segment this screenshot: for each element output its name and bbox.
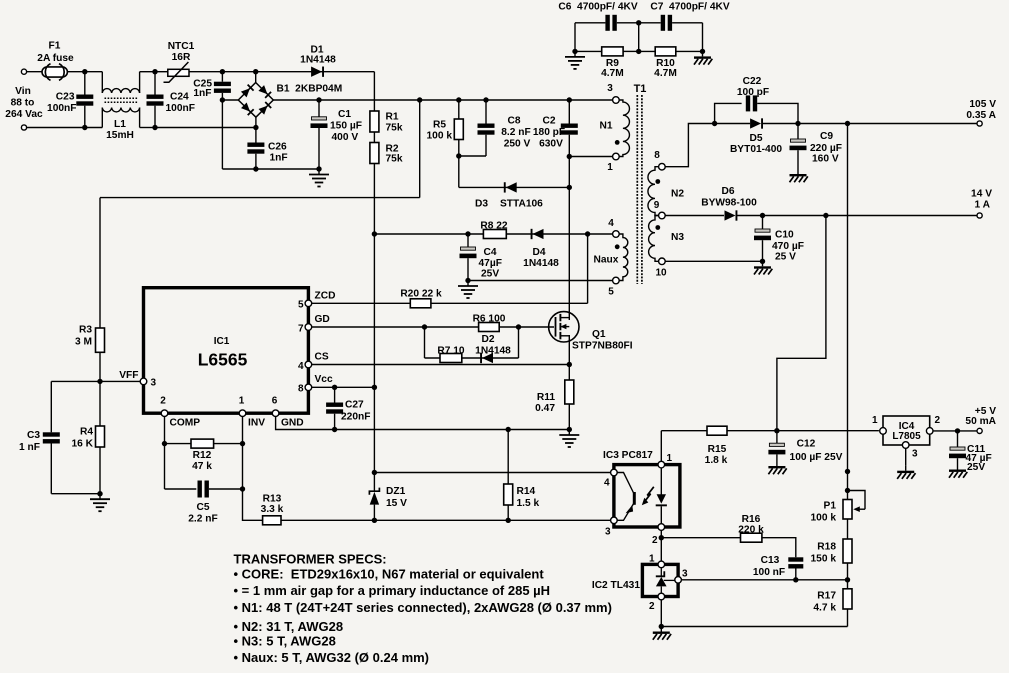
pin 2 COMP <box>161 410 168 417</box>
diode D5 <box>750 118 763 128</box>
capacitor C10 <box>754 229 771 240</box>
wire AC line to C23 <box>27 71 85 73</box>
wire <box>661 430 707 432</box>
svg-text:C6 4700pF/ 4KV: C6 4700pF/ 4KV <box>558 2 637 13</box>
resistor R12 <box>191 439 214 448</box>
wire <box>507 430 509 485</box>
wire <box>623 50 639 52</box>
resistor R20 <box>410 299 431 308</box>
wire TL431 ref line <box>681 579 847 581</box>
transformer winding Naux <box>619 234 628 281</box>
wire <box>847 563 849 580</box>
pin 7 GD <box>305 324 312 331</box>
svg-text:9: 9 <box>654 200 660 211</box>
svg-text:R11: R11 <box>537 392 555 403</box>
pin 4 CS <box>305 361 312 368</box>
pin 3 IC3 <box>611 517 618 524</box>
bridge diode bottom-right <box>258 101 271 114</box>
diode IC3 LED <box>656 468 667 524</box>
resistor R14 <box>504 484 513 505</box>
svg-text:R8 22: R8 22 <box>480 221 508 232</box>
wire <box>957 431 959 447</box>
svg-text:R3: R3 <box>79 325 92 336</box>
svg-text:7: 7 <box>298 324 304 335</box>
wire <box>84 72 86 95</box>
pin 1 INV <box>239 410 246 417</box>
svg-text:150 µF: 150 µF <box>330 121 362 132</box>
wire VFF to C3 <box>51 380 100 382</box>
wire <box>776 454 778 461</box>
capacitor C2 <box>561 124 578 135</box>
wire DC bus <box>273 99 319 101</box>
svg-text:• N1: 48 T (24T+24T series con: • N1: 48 T (24T+24T series connected), 2… <box>234 600 612 615</box>
wire <box>155 71 168 73</box>
wire <box>139 108 141 128</box>
junction startup node <box>372 231 377 236</box>
wire bus to VFF line <box>419 100 421 198</box>
svg-text:1nF: 1nF <box>270 153 288 164</box>
svg-text:• Naux: 5 T, AWG32 (Ø 0.24 mm): • Naux: 5 T, AWG32 (Ø 0.24 mm) <box>234 650 430 665</box>
wire <box>797 124 799 139</box>
pin 1 T1 <box>613 153 620 160</box>
terminal 5V output <box>977 428 982 433</box>
svg-text:R18: R18 <box>817 542 836 553</box>
wire startup chain down <box>373 164 375 235</box>
svg-text:2: 2 <box>649 601 655 612</box>
wire <box>154 72 156 95</box>
wire <box>638 23 640 52</box>
zener IC2 TL431 symbol <box>656 568 675 594</box>
pin 6 GND <box>272 410 279 417</box>
svg-text:3: 3 <box>605 527 611 538</box>
svg-text:C7 4700pF/ 4KV: C7 4700pF/ 4KV <box>650 2 729 13</box>
svg-text:1N4148: 1N4148 <box>300 55 336 66</box>
svg-text:16R: 16R <box>172 52 191 63</box>
node N3 phase dot <box>655 225 660 230</box>
svg-text:R7 10: R7 10 <box>437 346 465 357</box>
junction C9 top <box>795 121 800 126</box>
capacitor C24 <box>147 95 164 106</box>
pin 3 VFF <box>140 378 147 385</box>
junction R12 left <box>162 441 167 446</box>
svg-text:Vin: Vin <box>15 86 31 97</box>
svg-text:1nF: 1nF <box>193 88 211 99</box>
junction bus C2 <box>567 97 572 102</box>
svg-text:2: 2 <box>652 535 658 546</box>
junction C24 bottom <box>152 125 157 130</box>
wire <box>639 50 656 52</box>
wire <box>50 444 52 494</box>
svg-text:R15: R15 <box>708 444 727 455</box>
zener diode DZ1 <box>369 488 379 505</box>
diode D2 <box>480 353 493 363</box>
svg-text:F1: F1 <box>49 41 61 52</box>
svg-text:NTC1: NTC1 <box>168 41 195 52</box>
wire INV down <box>243 417 263 521</box>
svg-text:R14: R14 <box>517 486 536 497</box>
junction DZ1 top <box>372 470 377 475</box>
svg-text:3.3 k: 3.3 k <box>261 504 284 515</box>
svg-text:N3: N3 <box>671 232 684 243</box>
wire <box>847 472 849 491</box>
shunt regulator IC2 TL431 box <box>642 564 678 596</box>
junction R4 C3 bottom <box>97 491 102 496</box>
svg-text:C12: C12 <box>797 439 816 450</box>
junction C12 R15 <box>774 428 779 433</box>
svg-text:0.35 A: 0.35 A <box>966 110 996 121</box>
wire <box>715 123 751 125</box>
wire bridge AC1 stub <box>255 72 257 83</box>
wire <box>568 365 570 381</box>
svg-text:C26: C26 <box>268 142 287 153</box>
svg-text:BYT01-400: BYT01-400 <box>730 144 782 155</box>
junction C22 left <box>712 121 717 126</box>
wire <box>165 488 197 490</box>
capacitor C9 <box>790 139 807 150</box>
transistor Q1 body arrow <box>560 324 569 329</box>
svg-text:250 V: 250 V <box>504 139 531 150</box>
svg-text:4: 4 <box>604 478 610 489</box>
wire <box>518 327 520 358</box>
svg-text:1 nF: 1 nF <box>19 442 40 453</box>
wire <box>51 493 100 495</box>
capacitor C3 <box>43 432 60 443</box>
wire P1 wiper loop <box>848 491 866 510</box>
wire <box>209 488 243 490</box>
svg-text:14 V: 14 V <box>971 189 992 200</box>
junction bus C8 <box>483 97 488 102</box>
junction Y-cap primary gnd <box>572 49 577 54</box>
svg-text:1: 1 <box>667 453 673 464</box>
resistor R13 <box>263 516 281 525</box>
wire AC1 to D1 <box>256 71 375 73</box>
svg-text:100 k: 100 k <box>811 513 837 524</box>
svg-text:Vcc: Vcc <box>315 374 333 385</box>
pin 9 T1 <box>659 212 666 219</box>
capacitor C26 <box>247 143 264 154</box>
junction drain clamp <box>567 185 572 190</box>
svg-text:4: 4 <box>608 218 614 229</box>
node N1 phase dot <box>615 140 620 145</box>
svg-text:88 to: 88 to <box>11 98 35 109</box>
ground primary below R4 <box>90 494 110 512</box>
svg-text:75k: 75k <box>386 123 403 134</box>
diode D4 <box>531 229 544 239</box>
arrow P1 wiper <box>853 506 865 512</box>
wire <box>672 22 702 24</box>
resistor R1 <box>370 111 379 132</box>
wire <box>222 71 255 73</box>
svg-text:ZCD: ZCD <box>315 291 336 302</box>
svg-text:150 k: 150 k <box>811 554 837 565</box>
wire <box>617 22 661 24</box>
junction R14 bottom <box>506 518 511 523</box>
svg-text:8.2 nF: 8.2 nF <box>501 127 530 138</box>
node Naux phase dot <box>615 244 620 249</box>
wire <box>660 600 662 627</box>
terminal 105V output <box>977 121 982 126</box>
svg-text:STP7NB80FI: STP7NB80FI <box>572 341 633 352</box>
wire N2 pin8 up <box>665 124 714 167</box>
capacitor C22 <box>746 95 757 111</box>
svg-text:180 pF: 180 pF <box>533 127 565 138</box>
svg-text:R4: R4 <box>80 427 93 438</box>
svg-text:Q1: Q1 <box>592 329 606 340</box>
junction TL431 gnd <box>659 624 664 629</box>
svg-text:400 V: 400 V <box>332 132 359 143</box>
wire opto pin2 to TL431 <box>660 530 662 561</box>
junction R14 top <box>506 427 511 432</box>
junction C10 bottom <box>760 259 765 264</box>
resistor R11 <box>565 380 574 404</box>
capacitor C7 <box>661 15 672 31</box>
bridge diode bottom-left <box>241 102 254 115</box>
svg-text:• = 1 mm air gap for a primary: • = 1 mm air gap for a primary inductanc… <box>234 583 551 598</box>
wire AC neutral to bridge <box>155 127 256 129</box>
svg-text:GD: GD <box>315 314 330 325</box>
svg-text:100 pF: 100 pF <box>737 87 769 98</box>
wire <box>373 72 375 111</box>
wire primary ground rail <box>222 168 319 170</box>
svg-text:1N4148: 1N4148 <box>475 346 511 357</box>
wire VFF sense line <box>100 197 420 199</box>
junction R7 branch <box>422 324 427 329</box>
capacitor C1 <box>311 117 328 128</box>
wire <box>661 537 740 539</box>
diode D3 <box>504 182 517 192</box>
junction C2 bottom / N1 pin1 <box>567 154 572 159</box>
svg-text:D5: D5 <box>749 133 762 144</box>
transistor IC3 photo <box>617 473 634 521</box>
svg-text:47µF: 47µF <box>479 258 502 269</box>
svg-text:1: 1 <box>649 554 655 565</box>
wire <box>99 447 101 494</box>
svg-text:GND: GND <box>281 418 304 429</box>
svg-text:5: 5 <box>298 300 304 311</box>
svg-text:• CORE: ETD29x16x10, N67 mate: • CORE: ETD29x16x10, N67 material or equ… <box>234 567 545 582</box>
svg-text:N1: N1 <box>599 121 612 132</box>
ground primary below C1 <box>309 169 329 187</box>
junction DZ1 bottom <box>372 518 377 523</box>
wire <box>373 234 375 387</box>
junction C27 bottom <box>332 427 337 432</box>
svg-text:1.8 k: 1.8 k <box>705 455 728 466</box>
wire <box>99 198 101 328</box>
diode D6 <box>725 210 738 220</box>
junction C13 bottom <box>793 577 798 582</box>
svg-text:R20 22 k: R20 22 k <box>400 289 442 300</box>
junction C27 top <box>332 385 337 390</box>
wire <box>189 71 222 73</box>
junction C6 C7 <box>636 20 641 25</box>
capacitor C27 <box>326 403 343 414</box>
wire ZCD tap down <box>587 234 589 303</box>
svg-text:100nF: 100nF <box>166 103 195 114</box>
svg-text:220 k: 220 k <box>738 525 764 536</box>
capacitor C11 <box>949 447 966 458</box>
svg-text:TRANSFORMER SPECS:: TRANSFORMER SPECS: <box>234 552 387 567</box>
junction R5 C8 bottom <box>456 153 461 158</box>
svg-text:15 V: 15 V <box>386 498 407 509</box>
op-amp IC1 L6565 box <box>144 288 309 414</box>
capacitor C12 <box>768 443 785 454</box>
wire <box>905 448 907 465</box>
junction C4 top <box>465 231 470 236</box>
svg-text:• N3: 5 T, AWG28: • N3: 5 T, AWG28 <box>234 634 336 649</box>
wire <box>458 100 460 119</box>
svg-text:VFF: VFF <box>119 370 138 381</box>
wire Vcc aux line <box>374 233 612 235</box>
junction Vcc node <box>372 385 377 390</box>
wire <box>165 443 243 445</box>
capacitor C25 <box>214 82 231 93</box>
svg-text:8: 8 <box>298 384 304 395</box>
wire opto pin1 up <box>660 431 662 462</box>
junction bridge AC1 <box>253 69 258 74</box>
svg-text:3: 3 <box>151 378 157 389</box>
svg-text:C10: C10 <box>775 230 794 241</box>
svg-text:C5: C5 <box>196 502 209 513</box>
svg-text:264 Vac: 264 Vac <box>5 109 43 120</box>
svg-text:100nF: 100nF <box>47 103 76 114</box>
wire <box>101 72 103 93</box>
svg-text:6: 6 <box>272 396 278 407</box>
junction C23 top <box>82 69 87 74</box>
svg-text:105 V: 105 V <box>969 99 996 110</box>
junction divider top <box>845 469 850 474</box>
svg-text:5: 5 <box>608 287 614 298</box>
transistor Q1 gate bar <box>555 317 557 337</box>
svg-text:220nF: 220nF <box>341 412 370 423</box>
wire <box>574 23 576 52</box>
wire <box>255 154 257 169</box>
wire <box>467 258 469 280</box>
bridge rectifier B1 body <box>238 83 273 118</box>
chassis ground below C11 <box>949 465 967 478</box>
transformer T1 core <box>637 95 642 284</box>
wire <box>847 609 849 627</box>
wire bridge AC2 stub <box>255 117 257 127</box>
wire <box>50 381 52 432</box>
svg-text:• N2: 31 T, AWG28: • N2: 31 T, AWG28 <box>234 619 344 634</box>
wire C22 right <box>757 103 798 123</box>
svg-text:BYW98-100: BYW98-100 <box>701 198 757 209</box>
junction C11 top <box>955 428 960 433</box>
wire <box>795 569 797 580</box>
svg-text:100 nF: 100 nF <box>753 567 785 578</box>
resistor R2 <box>370 143 379 164</box>
inductor L1 top winding <box>102 89 139 93</box>
wire <box>847 491 849 500</box>
wire N2 pin9 to D6 <box>665 215 724 217</box>
chassis ground below C10 <box>754 261 772 274</box>
svg-text:3: 3 <box>912 449 918 460</box>
resistor R10 <box>655 47 676 56</box>
junction R7 rejoin <box>516 324 521 329</box>
wire N3 pin10 return <box>665 260 762 262</box>
junction R16 tap <box>659 535 664 540</box>
svg-text:25 V: 25 V <box>775 252 796 263</box>
svg-text:3 M: 3 M <box>75 337 92 348</box>
wire <box>459 155 486 157</box>
wire <box>334 387 336 402</box>
pin 8 T1 <box>659 163 666 170</box>
resistor R17 <box>843 589 852 609</box>
chassis ground below IC4 <box>897 466 915 479</box>
svg-text:B1 2KBP04M: B1 2KBP04M <box>277 84 343 95</box>
wire <box>702 23 704 52</box>
inductor L1 core <box>105 98 138 102</box>
svg-text:4.7 k: 4.7 k <box>813 603 836 614</box>
svg-text:C8: C8 <box>507 116 520 127</box>
wire <box>281 519 374 521</box>
wire <box>568 100 570 124</box>
bridge diode top-left <box>241 84 254 97</box>
svg-text:10: 10 <box>655 268 667 279</box>
svg-text:D4: D4 <box>532 247 545 258</box>
resistor R6 <box>479 323 500 332</box>
pin 1 IC4 <box>880 428 887 435</box>
chassis ground Y-cap <box>694 51 712 64</box>
svg-text:1 A: 1 A <box>975 200 991 211</box>
svg-text:R1: R1 <box>386 112 399 123</box>
svg-text:50 mA: 50 mA <box>965 416 996 427</box>
svg-text:220 µF: 220 µF <box>810 143 842 154</box>
pin 1 IC3 <box>658 461 665 468</box>
svg-text:L6565: L6565 <box>198 350 248 370</box>
svg-text:15mH: 15mH <box>106 130 134 141</box>
wire <box>318 100 320 117</box>
wire clamp to drain <box>459 186 570 188</box>
junction source CS <box>567 362 572 367</box>
arrow IC3 light <box>642 487 654 505</box>
wire drain <box>568 187 570 320</box>
junction bridge AC2 <box>253 125 258 130</box>
transistor Q1 drain stub <box>560 317 569 319</box>
junction C4 bottom <box>465 278 470 283</box>
transformer winding N2 <box>648 167 659 216</box>
junction C25 bottom / DC minus <box>220 97 225 102</box>
chassis ground below C12 <box>768 461 786 474</box>
svg-text:IC2 TL431: IC2 TL431 <box>592 580 640 591</box>
capacitor C4 <box>460 247 477 258</box>
inductor L1 bottom winding <box>102 108 139 112</box>
pin 5 ZCD <box>305 300 312 307</box>
svg-text:R13: R13 <box>263 494 282 505</box>
diode D1 <box>311 67 324 77</box>
svg-text:160 V: 160 V <box>812 154 839 165</box>
wire <box>255 128 257 143</box>
wire Vcc down to opto <box>373 387 375 472</box>
svg-text:0.47: 0.47 <box>535 403 555 414</box>
wire <box>847 519 849 539</box>
svg-text:C13: C13 <box>761 555 780 566</box>
wire <box>797 150 799 169</box>
wire <box>568 157 570 188</box>
svg-text:1: 1 <box>872 415 878 426</box>
junction C24 top <box>152 69 157 74</box>
junction VFF node <box>97 379 102 384</box>
svg-text:C23: C23 <box>56 92 75 103</box>
capacitor C5 <box>198 481 209 498</box>
svg-text:4: 4 <box>298 361 304 372</box>
wire IC ground line <box>276 417 570 430</box>
ground primary Y-cap <box>565 51 585 69</box>
wire <box>221 93 223 100</box>
wire <box>99 381 101 426</box>
transistor Q1 body <box>549 312 579 342</box>
svg-text:D6: D6 <box>721 186 734 197</box>
